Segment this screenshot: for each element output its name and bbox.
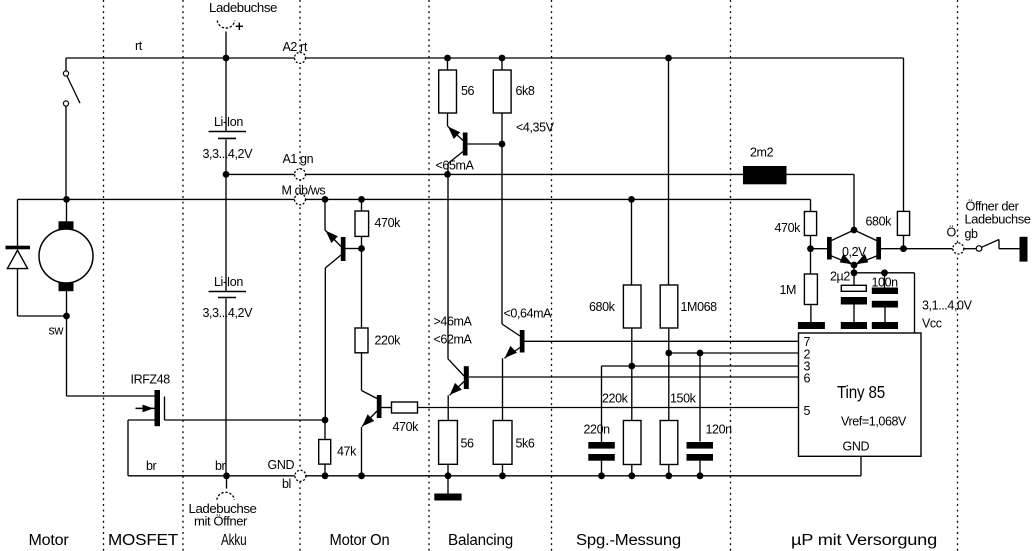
wire A1 to Q5 collector (447, 174, 449, 358)
wire Vcc down to Tiny (914, 273, 916, 333)
charge socket bottom (arc) (217, 492, 235, 500)
capacitor C 120n (687, 442, 714, 449)
ground symbol (C100n) (872, 322, 898, 329)
wire C120n to GND (699, 461, 701, 476)
svg-text:100n: 100n (872, 276, 899, 290)
junction GND rail / R56b (445, 472, 452, 479)
wire GND rail up to Tiny GND pin (860, 456, 862, 476)
transistor Q8 (uP diamond right) (854, 230, 877, 241)
switch S2 contact (976, 246, 982, 252)
battery cell 1 Li-Ion (209, 131, 247, 133)
junction GND rail / R47k (322, 472, 329, 479)
wire switch to M rail (65, 106, 67, 199)
svg-text:470k: 470k (775, 221, 802, 235)
transistor Q5 (Balancing left) (448, 359, 464, 376)
wire MOSFET drain stub (164, 397, 166, 421)
wire Q3 emitter to GND (361, 427, 363, 476)
wire GND rail right (306, 475, 861, 477)
wire top rail rt left (66, 57, 295, 59)
wire Q6 base to Tiny pin 7 (525, 340, 799, 342)
switch S2 blade (982, 240, 999, 248)
wire M rail left (18, 198, 295, 200)
wire M to R680k (631, 199, 633, 285)
ground symbol (Balancing) (434, 494, 461, 501)
svg-text:220k: 220k (375, 334, 402, 348)
switch S1 blade (67, 76, 80, 103)
wire rt rail down to 680k (903, 58, 905, 212)
wire diode to sw node (18, 315, 67, 317)
section divider 5 (551, 0, 553, 551)
wire R47k to GND (324, 464, 326, 476)
svg-text:Li-Ion: Li-Ion (214, 275, 243, 289)
wire to C120n (699, 353, 701, 442)
resistor R 470k (Motor On) (355, 211, 369, 236)
junction top rail / R56 (444, 55, 451, 62)
resistor R 47k (319, 440, 331, 465)
wire Vcc branch (854, 272, 915, 274)
svg-text:bl: bl (282, 477, 291, 491)
svg-text:Motor: Motor (29, 532, 69, 549)
wire R470k to R220k (361, 236, 363, 328)
battery cell 2 Li-Ion (209, 291, 247, 293)
svg-text:56: 56 (461, 437, 475, 451)
wire to terminal (999, 248, 1020, 250)
svg-text:Vref=1,068V: Vref=1,068V (841, 415, 907, 429)
wire to C100n (884, 273, 886, 288)
svg-text:3,3...4,2V: 3,3...4,2V (203, 306, 254, 320)
wire M rail to diode cathode (17, 199, 19, 246)
section divider 4 (428, 0, 430, 551)
capacitor C 220n (588, 442, 615, 449)
junction A1 / cell1- (223, 171, 230, 178)
svg-text:0,2V: 0,2V (842, 245, 867, 259)
svg-text:6k8: 6k8 (516, 84, 535, 98)
svg-text:A1 gn: A1 gn (283, 152, 314, 166)
junction GND rail / R150k (665, 472, 672, 479)
wire socket to top rail (225, 32, 227, 59)
wire diode anode down (17, 269, 19, 316)
svg-text:Balancing: Balancing (448, 532, 513, 549)
wire cell2 - to GND rail (225, 299, 227, 476)
svg-text:1M: 1M (780, 283, 797, 297)
svg-text:3,3...4,2V: 3,3...4,2V (203, 147, 254, 161)
wire divider B to Tiny pin 2 (669, 352, 799, 354)
svg-text:120n: 120n (706, 423, 733, 437)
wire source down to GND rail (127, 420, 129, 476)
wire R220k to Q3 (361, 353, 363, 391)
resistor R 56 (Balancing) (439, 421, 458, 465)
terminal bar (Oeffner) (1020, 237, 1028, 262)
svg-text:<62mA: <62mA (434, 333, 473, 347)
svg-text:3,1...4,0V: 3,1...4,0V (922, 299, 973, 313)
svg-text:2µ2: 2µ2 (830, 270, 850, 284)
svg-text:220n: 220n (584, 423, 611, 437)
wire R56 to Q4 emitter (447, 113, 449, 126)
motor terminal block top (59, 221, 74, 229)
wire to motor terminal top (66, 199, 68, 221)
junction pin3 net / divider A (628, 363, 635, 370)
wire A1 rail right (306, 173, 744, 175)
junction pin2 net / C120n (697, 350, 704, 357)
junction diamond top (851, 227, 858, 234)
wire R680k(uP) to base node (903, 236, 905, 249)
IC U1 Tiny 85 (799, 333, 922, 456)
resistor R 220k (Spg) (623, 421, 641, 465)
motor terminal block bottom (59, 283, 74, 292)
svg-text:<4,35V: <4,35V (516, 121, 555, 135)
junction A1 rail / Q4 collector (444, 171, 451, 178)
svg-text:47k: 47k (337, 445, 357, 459)
svg-text:6: 6 (804, 372, 811, 386)
MOSFET Q1 IRFZ48 channel bar (155, 390, 161, 426)
wire R1M068 to R150k (668, 328, 670, 421)
junction Q4 base / R6k8 (499, 141, 506, 148)
junction M rail / R 470k (358, 196, 365, 203)
wire cell1 - to A1 (225, 140, 227, 175)
section divider 2 (182, 0, 184, 551)
wire drain rail to 47k node (165, 419, 326, 421)
transistor Q6 (Balancing right) (502, 324, 520, 336)
junction C100n top (881, 269, 888, 276)
wire A1 to cell2 + (225, 174, 227, 291)
junction Q8 base / R680k (900, 245, 907, 252)
junction Vcc tap (851, 269, 858, 276)
junction Q2 base / divider (358, 245, 365, 252)
svg-text:>46mA: >46mA (434, 315, 473, 329)
svg-text:Ö:: Ö: (947, 226, 959, 240)
svg-text:Vcc: Vcc (922, 317, 942, 331)
svg-text:<0,64mA: <0,64mA (504, 307, 553, 321)
wire rail to R56 (447, 58, 449, 70)
section divider 3 (299, 0, 301, 551)
capacitor C 2u2 (polarized) (841, 285, 866, 291)
svg-text:MOSFET: MOSFET (108, 532, 179, 549)
svg-text:56: 56 (461, 84, 475, 98)
resistor R 56 (top) (439, 70, 457, 113)
switch S1 bottom contact (63, 101, 68, 106)
resistor R 470k (horizontal) (392, 402, 418, 413)
plus sign at charge socket (236, 25, 243, 27)
svg-text:5k6: 5k6 (516, 437, 535, 451)
wire M rail end to R470k (uP) (810, 199, 812, 211)
junction 47k top / drain rail (322, 417, 329, 424)
capacitor C 100n (872, 288, 898, 295)
junction M rail / R680k (628, 196, 635, 203)
wire to cell1 + (225, 58, 227, 132)
resistor R 6k8 (493, 70, 511, 113)
connector pad A1 (295, 169, 306, 180)
svg-text:<65mA: <65mA (436, 159, 475, 173)
wire C220n to GND (601, 461, 603, 476)
wire to ground symbol (447, 476, 449, 494)
wire top rail to R1M068 (668, 58, 670, 285)
transistor Q2 (Motor On PNP) (325, 230, 341, 247)
wire Q6 emitter to R5k6 (502, 358, 504, 420)
junction top rail / R1M068 (665, 55, 672, 62)
resistor R 470k (uP) (804, 212, 816, 236)
transistor Q3 (Motor On NPN) (362, 391, 378, 399)
svg-text:220k: 220k (602, 392, 629, 406)
resistor R 5k6 (493, 421, 512, 465)
wire MOSFET source left (128, 419, 155, 421)
wire M rail right (306, 198, 811, 200)
wire R5k6 to GND (502, 464, 504, 476)
junction GND rail / C120n (697, 472, 704, 479)
transistor Q4 (<65mA) (448, 126, 464, 141)
section divider 7 (957, 0, 959, 551)
svg-text:A2 rt: A2 rt (283, 40, 308, 54)
svg-text:Ladebuchse: Ladebuchse (965, 213, 1031, 227)
svg-text:470k: 470k (375, 216, 402, 230)
svg-text:Motor On: Motor On (330, 532, 390, 549)
wire Q2 collector down (324, 268, 326, 420)
wire R680k to R220k (631, 328, 633, 421)
wire A1 rail left (226, 173, 295, 175)
wire R6k8 to Q4 base (501, 113, 503, 144)
wire M to R470k (361, 199, 363, 211)
svg-text:IRFZ48: IRFZ48 (131, 373, 171, 387)
wire rail to R6k8 (501, 58, 503, 70)
connector pad A2 (295, 52, 306, 63)
wire diamond bottom to C2u2 (853, 265, 855, 286)
junction GND rail / battery - (223, 472, 230, 479)
junction GND rail / C220n (598, 472, 605, 479)
wire down to diamond top node (853, 174, 855, 230)
junction GND rail / Q3 emitter (358, 472, 365, 479)
wire Oe pad to switch (964, 248, 976, 250)
wire 2m2 to diamond top (787, 173, 855, 175)
wire R1M to ground (810, 305, 812, 323)
svg-text:mit Öffner: mit Öffner (194, 515, 247, 529)
svg-text:Tiny 85: Tiny 85 (837, 382, 885, 402)
transistor Q7 (uP diamond left) (832, 230, 855, 241)
section divider 1 (103, 0, 105, 551)
ground symbol (R1M) (798, 322, 825, 329)
wire Q5 emitter to R56b (447, 395, 449, 420)
charge socket top (arc) (217, 21, 235, 29)
junction top rail / battery + (223, 55, 230, 62)
wire R150k to GND (668, 465, 670, 476)
wire C100n to ground (884, 308, 886, 323)
junction Q7 base (807, 245, 814, 252)
wire GND rail left (128, 475, 295, 477)
wire motor bottom to sw node (66, 291, 68, 316)
wire base net to Oe pad (904, 248, 953, 250)
wire R470k to base node (810, 236, 812, 249)
wire to MOSFET gate (67, 395, 155, 397)
svg-text:Ladebuchse: Ladebuchse (209, 1, 277, 15)
wire Q3 base net to Tiny pin 5 (418, 407, 799, 409)
wire Q2 emitter down (324, 199, 326, 230)
svg-text:br: br (215, 459, 226, 473)
svg-text:Öffner der: Öffner der (966, 200, 1019, 214)
connector pad M (295, 194, 306, 205)
wire R56b to GND (447, 464, 449, 476)
resistor R 1M068 (660, 285, 678, 328)
svg-text:gb: gb (965, 227, 979, 241)
svg-text:Spg.-Messung: Spg.-Messung (576, 532, 681, 549)
wire blade end down (998, 240, 1000, 249)
svg-text:680k: 680k (589, 300, 616, 314)
wire base node to R1M (810, 249, 812, 274)
wire to C220n (601, 366, 603, 442)
junction top rail / R6k8 (499, 55, 506, 62)
switch S1 top contact (63, 71, 68, 76)
svg-text:rt: rt (135, 39, 143, 53)
svg-text:GND: GND (268, 458, 295, 472)
junction GND rail / R220k (628, 472, 635, 479)
wire R220k to GND (631, 465, 633, 476)
resistor R 220k (Motor On) (355, 328, 368, 353)
resistor R 150k (660, 421, 678, 465)
resistor R 680k (Spg) (623, 285, 641, 328)
wire drain node to R47k (324, 420, 326, 440)
resistor R 2m2 (shunt, filled) (743, 166, 787, 184)
MOSFET Q1 substrate arrow (136, 407, 155, 409)
svg-text:µP mit Versorgung: µP mit Versorgung (791, 532, 937, 549)
wire top rail rt right (306, 57, 904, 59)
junction GND rail / R5k6 (499, 472, 506, 479)
section divider 6 (730, 0, 732, 551)
junction M rail / motor top (63, 196, 70, 203)
wire base net down to Q6 collector (501, 144, 503, 324)
svg-text:Akku: Akku (221, 532, 247, 549)
svg-text:470k: 470k (393, 420, 420, 434)
svg-text:GND: GND (843, 440, 870, 454)
wire Q5 base to Tiny pin 6 (469, 376, 799, 378)
svg-text:br: br (146, 459, 157, 473)
connector pad Oe (953, 243, 964, 254)
svg-text:2m2: 2m2 (750, 146, 774, 160)
wire to bottom socket (226, 476, 228, 489)
wire sw node down (66, 316, 68, 396)
svg-text:150k: 150k (670, 392, 697, 406)
wire C2u2 to ground (853, 305, 855, 323)
svg-text:1M068: 1M068 (681, 300, 718, 314)
junction diamond bottom (851, 262, 858, 269)
resistor R 680k (uP) (897, 211, 909, 235)
diode D1 (freewheel) (6, 246, 31, 250)
svg-text:Li-Ion: Li-Ion (214, 115, 243, 129)
junction M rail / Q2 emitter (322, 196, 329, 203)
junction pin2 net / divider B (665, 350, 672, 357)
wire rail to switch (65, 58, 67, 71)
junction node sw (63, 313, 70, 320)
motor M1 body (39, 229, 93, 283)
resistor R 1M (804, 274, 817, 305)
svg-text:5: 5 (804, 404, 811, 418)
wire divider A to Tiny pin 3 (602, 365, 799, 367)
svg-text:680k: 680k (866, 215, 893, 229)
ground symbol (C2u2) (841, 322, 867, 329)
connector pad GND (295, 470, 306, 481)
svg-text:sw: sw (49, 324, 65, 338)
